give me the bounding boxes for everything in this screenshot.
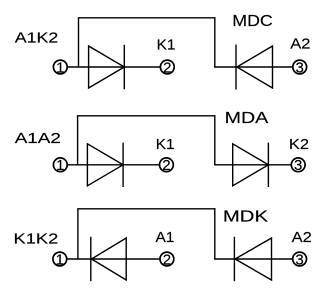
svg-text:MDC: MDC [232,12,272,30]
svg-text:2: 2 [163,251,171,268]
wire: terminal 1 to diode D1 and terminal 2 (main wire row 3) [67,258,161,260]
svg-text:MDK: MDK [223,207,268,225]
wire: diode D2 to terminal 3 [214,258,293,260]
svg-text:A1K2: A1K2 [15,30,59,46]
wire: vertical riser from terminal-1 node [78,18,80,67]
svg-text:1: 1 [56,59,64,76]
svg-text:A2: A2 [292,230,312,246]
wire: right drop to diode D2 cathode [214,17,216,67]
terminal 1 (row 1) [53,60,67,74]
terminal 1 (row 2) [53,158,67,172]
wire: right drop to diode D2 anode [214,115,216,165]
terminal 2 (row 2) [160,158,174,172]
svg-text:MDA: MDA [225,109,269,127]
diode D1 (anode at terminal 1, cathode K1) [89,45,125,89]
svg-text:K1: K1 [157,37,176,54]
diode D1 (anode at terminal 1, cathode K1) [87,143,123,187]
svg-text:K1: K1 [156,136,175,153]
wire: diode D2 to terminal 3 [214,164,291,166]
svg-text:K2: K2 [289,136,309,152]
svg-text:3: 3 [295,251,303,268]
diode D1 (cathode at terminal 1, anode A1) [91,237,126,281]
svg-text:3: 3 [294,157,302,174]
wire: vertical riser from terminal-1 node [77,116,79,165]
svg-text:A1A2: A1A2 [15,130,61,147]
svg-text:3: 3 [296,59,304,76]
terminal 2 (row 1) [160,60,174,74]
svg-text:1: 1 [56,251,64,268]
svg-text:1: 1 [56,157,64,174]
terminal 3 (row 3) [293,252,307,266]
svg-text:2: 2 [162,157,170,174]
wire: terminal 1 to diode D1 and terminal 2 (main wire row 1) [67,66,161,68]
wire: terminal 1 to diode D1 and terminal 2 (main wire row 2) [67,164,160,166]
svg-text:A2: A2 [290,36,310,52]
wire: diode D2 to terminal 3 [214,66,292,68]
diode D2 (cathode to riser, anode A2) [236,45,273,90]
terminal 3 (row 2) [291,158,305,172]
svg-text:A1: A1 [156,229,175,246]
diode D2 (cathode to riser, anode A2) [234,237,271,281]
wire: right drop to diode D2 cathode [214,208,216,259]
wire: vertical riser from terminal-1 node [77,209,79,259]
terminal 1 (row 3) [53,252,67,266]
diode D2 (anode to riser, cathode K2) [233,143,269,187]
terminal 2 (row 3) [160,252,174,266]
wire: top horizontal link [77,208,215,210]
svg-text:2: 2 [163,59,171,76]
wire: top horizontal link [77,115,215,117]
wire: top horizontal link [78,17,215,19]
svg-text:K1K2: K1K2 [14,230,59,247]
terminal 3 (row 1) [293,60,307,74]
